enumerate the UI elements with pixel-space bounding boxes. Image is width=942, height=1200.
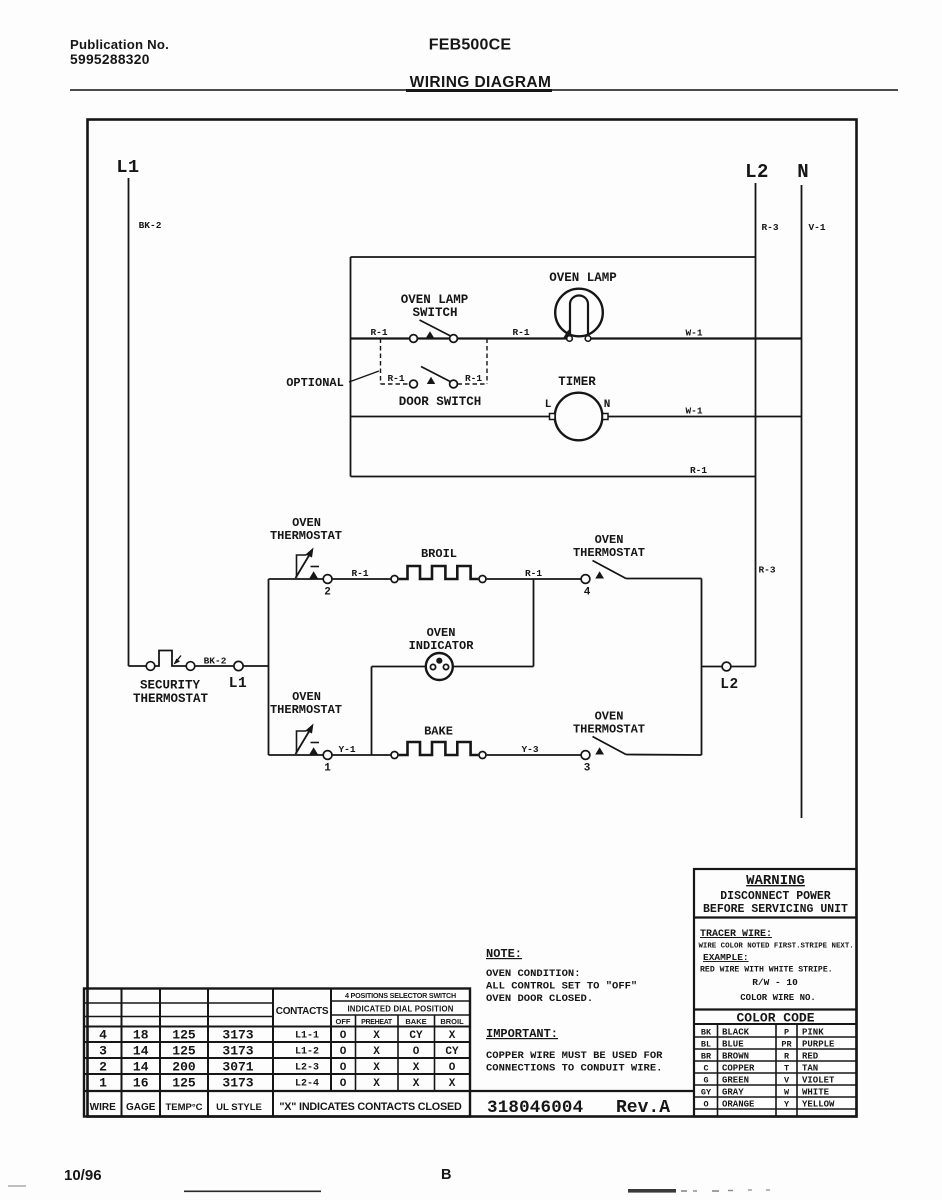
broil element xyxy=(399,566,479,579)
svg-text:PR: PR xyxy=(781,1040,792,1050)
node L2 terminal xyxy=(722,662,731,671)
svg-text:L2-4: L2-4 xyxy=(295,1079,319,1090)
svg-text:THERMOSTAT: THERMOSTAT xyxy=(270,703,342,717)
svg-text:WIRING DIAGRAM: WIRING DIAGRAM xyxy=(410,74,552,91)
svg-text:GREEN: GREEN xyxy=(722,1076,749,1086)
svg-text:Publication No.: Publication No. xyxy=(70,37,169,52)
svg-text:4 POSITIONS SELECTOR SWITCH: 4 POSITIONS SELECTOR SWITCH xyxy=(345,991,456,1000)
oven lamp filament xyxy=(570,296,588,338)
wire N vertical xyxy=(801,185,803,818)
svg-text:1: 1 xyxy=(324,763,331,775)
svg-text:4: 4 xyxy=(584,587,591,599)
oven lamp switch terminal right xyxy=(450,335,458,343)
svg-text:ORANGE: ORANGE xyxy=(722,1100,755,1110)
svg-text:UL STYLE: UL STYLE xyxy=(216,1102,262,1113)
wire bake row xyxy=(269,754,395,756)
oven lamp bulb circle xyxy=(555,289,603,337)
broil element terminal left xyxy=(391,576,398,583)
svg-text:X: X xyxy=(449,1030,456,1042)
svg-text:14: 14 xyxy=(133,1044,149,1059)
svg-text:R-3: R-3 xyxy=(758,565,775,576)
svg-text:C: C xyxy=(703,1064,708,1074)
svg-text:BAKE: BAKE xyxy=(424,725,453,739)
svg-text:COLOR WIRE NO.: COLOR WIRE NO. xyxy=(740,993,816,1003)
svg-text:CY: CY xyxy=(409,1030,423,1042)
svg-text:GAGE: GAGE xyxy=(126,1102,156,1113)
table verticals xyxy=(121,989,123,1117)
svg-text:R-1: R-1 xyxy=(690,465,707,476)
svg-text:W: W xyxy=(784,1088,790,1098)
svg-text:R-1: R-1 xyxy=(525,568,542,579)
node L2 terminal wire xyxy=(702,666,756,668)
svg-text:R-3: R-3 xyxy=(761,222,778,233)
wire thermostat 3 to right corner xyxy=(626,754,702,757)
svg-text:5995288320: 5995288320 xyxy=(70,52,150,67)
wire oven lamp row xyxy=(351,337,568,339)
svg-text:O: O xyxy=(340,1062,347,1074)
svg-text:O: O xyxy=(449,1062,456,1074)
svg-text:X: X xyxy=(373,1030,380,1042)
svg-text:3173: 3173 xyxy=(222,1076,253,1091)
svg-text:OVEN: OVEN xyxy=(595,533,624,547)
oven lamp switch blade xyxy=(420,320,453,337)
wire lamp loop bottom edge xyxy=(351,476,756,478)
svg-text:YELLOW: YELLOW xyxy=(802,1100,835,1110)
svg-text:125: 125 xyxy=(172,1044,196,1059)
oven thermostat 2 symbol xyxy=(297,555,307,578)
svg-text:BK-2: BK-2 xyxy=(139,220,162,231)
svg-text:OVEN DOOR CLOSED.: OVEN DOOR CLOSED. xyxy=(486,993,593,1005)
svg-text:10/96: 10/96 xyxy=(64,1167,102,1184)
svg-text:ALL CONTROL SET TO "OFF": ALL CONTROL SET TO "OFF" xyxy=(486,981,637,993)
bake element terminal left xyxy=(391,752,398,759)
svg-text:Y: Y xyxy=(784,1100,790,1110)
svg-text:P: P xyxy=(784,1028,789,1038)
svg-text:R-1: R-1 xyxy=(465,373,482,384)
svg-text:125: 125 xyxy=(172,1028,196,1043)
svg-text:INDICATED DIAL POSITION: INDICATED DIAL POSITION xyxy=(347,1005,453,1014)
svg-text:G: G xyxy=(703,1076,708,1086)
oven thermostat 1 terminal xyxy=(323,751,332,760)
svg-text:THERMOSTAT: THERMOSTAT xyxy=(573,723,645,737)
svg-text:TRACER WIRE:: TRACER WIRE: xyxy=(700,929,772,940)
svg-text:OVEN: OVEN xyxy=(427,626,456,640)
svg-text:BAKE: BAKE xyxy=(405,1017,426,1026)
svg-text:CONTACTS: CONTACTS xyxy=(276,1006,329,1017)
svg-text:VIOLET: VIOLET xyxy=(802,1076,835,1086)
svg-text:L1: L1 xyxy=(116,157,139,178)
svg-text:RED WIRE WITH WHITE STRIPE.: RED WIRE WITH WHITE STRIPE. xyxy=(700,966,833,975)
color code table lines xyxy=(717,1024,719,1117)
header rule xyxy=(70,89,898,91)
svg-text:CY: CY xyxy=(445,1046,459,1058)
security thermostat terminal 1 xyxy=(146,662,155,671)
svg-text:L2: L2 xyxy=(745,161,769,183)
svg-text:V: V xyxy=(784,1076,790,1086)
oven lamp terminal left xyxy=(567,336,573,342)
wire broil row xyxy=(269,578,395,580)
svg-text:X: X xyxy=(449,1078,456,1090)
svg-text:OVEN: OVEN xyxy=(595,710,624,724)
svg-text:125: 125 xyxy=(172,1076,196,1091)
svg-text:4: 4 xyxy=(99,1028,107,1043)
svg-text:COPPER: COPPER xyxy=(722,1064,755,1074)
svg-text:CONNECTIONS TO CONDUIT WIRE.: CONNECTIONS TO CONDUIT WIRE. xyxy=(486,1063,662,1075)
broil element terminal right xyxy=(479,576,486,583)
security thermostat sensor mark xyxy=(175,656,182,664)
wire junction vertical (left branch) xyxy=(268,579,270,755)
svg-text:"X" INDICATES CONTACTS CLOSED: "X" INDICATES CONTACTS CLOSED xyxy=(279,1101,462,1113)
wire lamp loop left edge xyxy=(350,257,352,477)
svg-text:OVEN LAMP: OVEN LAMP xyxy=(549,271,617,285)
oven thermostat 4 arrow xyxy=(595,571,604,578)
dashed wire optional left vertical xyxy=(380,339,382,385)
svg-text:16: 16 xyxy=(133,1076,149,1091)
svg-text:BLUE: BLUE xyxy=(722,1040,744,1050)
svg-text:3071: 3071 xyxy=(222,1060,253,1075)
svg-text:TAN: TAN xyxy=(802,1064,818,1074)
svg-text:3173: 3173 xyxy=(222,1028,253,1043)
svg-text:OVEN: OVEN xyxy=(292,690,321,704)
svg-text:GRAY: GRAY xyxy=(722,1088,744,1098)
svg-text:T: T xyxy=(784,1064,789,1074)
main diagram border xyxy=(88,120,857,1117)
wire broil to thermostat 4 xyxy=(487,578,581,580)
svg-text:318046004: 318046004 xyxy=(487,1098,583,1118)
svg-text:Y-3: Y-3 xyxy=(521,744,538,755)
svg-text:L2-3: L2-3 xyxy=(295,1063,319,1074)
oven thermostat 3 blade xyxy=(593,737,627,755)
bottom band divider xyxy=(84,1090,694,1092)
svg-text:WIRE COLOR NOTED FIRST.STRIPE: WIRE COLOR NOTED FIRST.STRIPE NEXT. xyxy=(699,943,854,951)
svg-text:SECURITY: SECURITY xyxy=(140,679,201,693)
wire R-1 junction vertical to indicator xyxy=(533,579,535,667)
svg-text:O: O xyxy=(413,1046,420,1058)
oven lamp terminal right xyxy=(585,336,591,342)
svg-text:2: 2 xyxy=(324,587,331,599)
dashed wire optional right vertical xyxy=(486,339,488,385)
svg-text:DOOR SWITCH: DOOR SWITCH xyxy=(399,395,482,409)
svg-text:OVEN: OVEN xyxy=(292,516,321,530)
security thermostat terminal 2 xyxy=(186,662,195,671)
svg-text:BROWN: BROWN xyxy=(722,1052,749,1062)
svg-text:DISCONNECT POWER: DISCONNECT POWER xyxy=(720,890,831,903)
svg-text:OVEN CONDITION:: OVEN CONDITION: xyxy=(486,968,581,980)
svg-text:3: 3 xyxy=(99,1044,107,1059)
svg-text:3: 3 xyxy=(584,763,591,775)
footer left tick xyxy=(8,1185,26,1187)
svg-text:X: X xyxy=(413,1078,420,1090)
svg-text:INDICATOR: INDICATOR xyxy=(409,639,475,653)
svg-text:BK: BK xyxy=(701,1028,712,1038)
node L1 terminal xyxy=(234,661,243,670)
svg-text:R-1: R-1 xyxy=(387,373,404,384)
door switch terminal right xyxy=(450,380,458,388)
oven indicator lamp xyxy=(426,653,453,680)
svg-text:2: 2 xyxy=(99,1060,107,1075)
svg-text:Rev.A: Rev.A xyxy=(616,1098,670,1118)
svg-text:O: O xyxy=(340,1046,347,1058)
svg-text:R: R xyxy=(784,1052,790,1062)
svg-text:BR: BR xyxy=(701,1052,712,1062)
oven lamp switch terminal left xyxy=(410,335,418,343)
svg-text:18: 18 xyxy=(133,1028,149,1043)
wire L1 vertical xyxy=(128,178,130,666)
svg-text:BL: BL xyxy=(701,1040,711,1050)
svg-text:THERMOSTAT: THERMOSTAT xyxy=(133,692,209,706)
door switch terminal left xyxy=(410,380,418,388)
oven lamp switch arrow xyxy=(426,331,434,338)
footer rule xyxy=(184,1190,321,1192)
svg-text:3173: 3173 xyxy=(222,1044,253,1059)
svg-text:NOTE:: NOTE: xyxy=(486,947,522,961)
svg-text:TIMER: TIMER xyxy=(558,375,596,389)
svg-text:N: N xyxy=(604,399,611,411)
svg-text:WHITE: WHITE xyxy=(802,1088,830,1098)
wire L2 / R-3 vertical xyxy=(755,183,757,667)
svg-text:BK-2: BK-2 xyxy=(204,656,227,667)
svg-text:W-1: W-1 xyxy=(685,328,702,339)
warning box xyxy=(694,869,857,1117)
svg-text:BLACK: BLACK xyxy=(722,1028,750,1038)
svg-text:R-1: R-1 xyxy=(512,327,529,338)
svg-text:COPPER WIRE MUST BE USED FOR: COPPER WIRE MUST BE USED FOR xyxy=(486,1050,663,1062)
wire thermostat 4 to right corner xyxy=(626,578,702,580)
svg-text:W-1: W-1 xyxy=(685,406,702,417)
svg-text:OFF: OFF xyxy=(336,1017,351,1026)
wire lamp loop top edge xyxy=(351,256,756,258)
svg-text:O: O xyxy=(340,1078,347,1090)
door switch arrow xyxy=(427,377,435,384)
oven thermostat 4 terminal xyxy=(581,575,590,584)
svg-text:L1-2: L1-2 xyxy=(295,1047,319,1058)
svg-text:WARNING: WARNING xyxy=(746,873,805,889)
oven thermostat 2 terminal xyxy=(323,575,332,584)
svg-text:R-1: R-1 xyxy=(370,327,387,338)
oven thermostat 3 terminal xyxy=(581,751,590,760)
svg-text:R-1: R-1 xyxy=(351,568,368,579)
oven thermostat 3 arrow xyxy=(595,747,604,754)
svg-text:PURPLE: PURPLE xyxy=(802,1040,835,1050)
wire security thermostat row xyxy=(129,651,269,667)
wire bake to thermostat 3 xyxy=(487,754,581,756)
svg-text:L1: L1 xyxy=(229,676,247,692)
svg-text:OVEN LAMP: OVEN LAMP xyxy=(401,293,469,307)
svg-text:PINK: PINK xyxy=(802,1028,824,1038)
table horizontals xyxy=(84,1002,273,1004)
svg-text:1: 1 xyxy=(99,1076,107,1091)
svg-text:TEMP°C: TEMP°C xyxy=(165,1102,202,1113)
bake element terminal right xyxy=(479,752,486,759)
wire timer row xyxy=(351,416,555,418)
wire indicator left vertical xyxy=(371,667,373,756)
svg-text:Y-1: Y-1 xyxy=(338,744,355,755)
svg-text:O: O xyxy=(703,1100,708,1110)
svg-text:BROIL: BROIL xyxy=(440,1017,464,1026)
svg-text:X: X xyxy=(373,1046,380,1058)
svg-text:SWITCH: SWITCH xyxy=(412,306,457,320)
svg-text:FEB500CE: FEB500CE xyxy=(429,37,512,54)
dashed wire door switch left xyxy=(381,383,410,385)
svg-text:THERMOSTAT: THERMOSTAT xyxy=(270,529,342,543)
svg-text:V-1: V-1 xyxy=(808,222,825,233)
svg-text:200: 200 xyxy=(172,1060,196,1075)
svg-text:B: B xyxy=(441,1167,451,1183)
svg-text:BROIL: BROIL xyxy=(421,547,457,561)
oven lamp small wedge xyxy=(564,330,571,338)
optional pointer line xyxy=(349,371,379,382)
wire/contacts table outer border xyxy=(84,989,470,1117)
oven thermostat 1 symbol xyxy=(297,731,307,754)
svg-text:GY: GY xyxy=(701,1088,712,1098)
svg-text:OPTIONAL: OPTIONAL xyxy=(286,376,344,390)
svg-text:IMPORTANT:: IMPORTANT: xyxy=(486,1027,558,1041)
svg-text:THERMOSTAT: THERMOSTAT xyxy=(573,546,645,560)
svg-text:EXAMPLE:: EXAMPLE: xyxy=(703,952,749,963)
svg-text:RED: RED xyxy=(802,1052,819,1062)
svg-text:L: L xyxy=(545,399,552,411)
svg-text:X: X xyxy=(373,1078,380,1090)
svg-text:O: O xyxy=(340,1030,347,1042)
bake element xyxy=(399,742,479,755)
footer right marks xyxy=(628,1189,676,1193)
svg-text:14: 14 xyxy=(133,1060,149,1075)
svg-text:X: X xyxy=(413,1062,420,1074)
svg-text:N: N xyxy=(797,161,808,183)
svg-text:X: X xyxy=(373,1062,380,1074)
svg-text:WIRE: WIRE xyxy=(90,1102,116,1113)
oven thermostat 4 blade xyxy=(593,561,627,579)
timer body circle xyxy=(555,393,603,441)
svg-text:BEFORE SERVICING UNIT: BEFORE SERVICING UNIT xyxy=(703,903,848,916)
wire right vertical (thermostat 4 to 3) xyxy=(701,579,703,756)
title underline xyxy=(406,89,552,92)
door switch blade xyxy=(421,367,453,384)
svg-text:L1-1: L1-1 xyxy=(295,1031,319,1042)
dashed wire door switch right xyxy=(458,383,488,385)
svg-text:PREHEAT: PREHEAT xyxy=(361,1019,393,1026)
wire indicator row xyxy=(372,666,534,668)
svg-text:COLOR CODE: COLOR CODE xyxy=(736,1011,814,1026)
svg-text:L2: L2 xyxy=(720,677,738,693)
svg-text:R/W - 10: R/W - 10 xyxy=(752,977,798,988)
